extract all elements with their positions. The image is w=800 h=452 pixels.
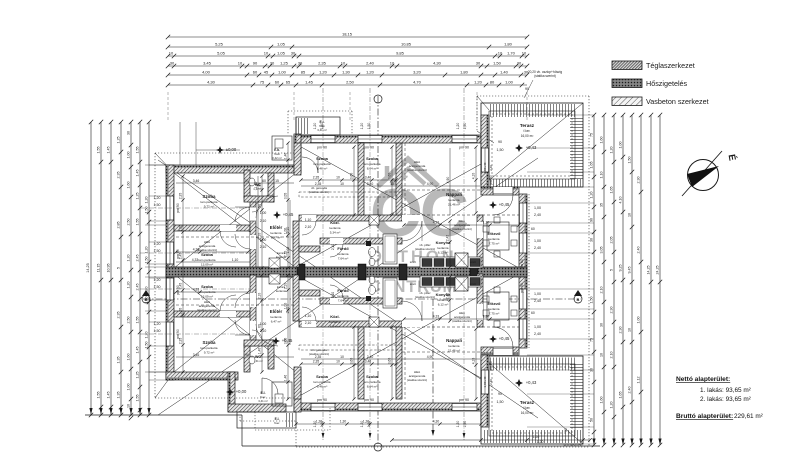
- svg-text:6,12 m²: 6,12 m²: [438, 303, 449, 307]
- svg-text:1,40: 1,40: [258, 183, 262, 190]
- door gap furdo b: [330, 298, 343, 304]
- svg-text:Szoba: Szoba: [201, 284, 214, 289]
- bottom window chain: [296, 423, 481, 425]
- svg-text:+0,45: +0,45: [499, 336, 510, 341]
- svg-text:2,10: 2,10: [284, 283, 288, 290]
- svg-text:15: 15: [275, 179, 279, 183]
- svg-text:4,90: 4,90: [427, 355, 434, 359]
- svg-text:90: 90: [590, 218, 594, 222]
- partition door arc bottom: [220, 295, 236, 311]
- svg-text:4,10: 4,10: [472, 358, 476, 365]
- svg-text:1,50: 1,50: [497, 148, 504, 152]
- svg-text:6,47 m²: 6,47 m²: [271, 320, 282, 324]
- svg-text:60: 60: [258, 204, 262, 208]
- svg-text:10: 10: [628, 213, 632, 217]
- svg-text:4,30: 4,30: [433, 420, 440, 424]
- svg-text:18,15: 18,15: [342, 31, 353, 36]
- door arc nappali bottom: [402, 301, 422, 321]
- svg-text:1,60: 1,60: [127, 182, 131, 189]
- svg-text:1,35: 1,35: [117, 357, 121, 364]
- svg-text:1,20: 1,20: [363, 420, 370, 424]
- svg-text:Terasz: Terasz: [520, 123, 535, 128]
- bottom porch step hatching: [284, 413, 295, 427]
- svg-text:0,42 m²: 0,42 m²: [272, 156, 282, 160]
- window S wall 3: [452, 403, 477, 411]
- svg-text:1,20: 1,20: [319, 69, 328, 74]
- svg-text:4,30: 4,30: [207, 79, 216, 84]
- svg-text:1,50: 1,50: [590, 297, 594, 304]
- window N wall 3: [452, 135, 477, 143]
- terrace door arc top: [493, 195, 513, 215]
- svg-text:9,72 m²: 9,72 m²: [204, 351, 215, 355]
- svg-text:2,50: 2,50: [346, 79, 355, 84]
- party wall column blocks: [297, 264, 305, 280]
- svg-text:2,35: 2,35: [117, 312, 121, 319]
- svg-text:szell.: szell.: [470, 282, 477, 286]
- terrace diagonal: [481, 356, 583, 444]
- eb storage box bottom: [272, 382, 292, 406]
- window E wall 1: [519, 203, 527, 223]
- svg-text:szell.: szell.: [410, 260, 417, 264]
- svg-text:1,30: 1,30: [342, 69, 351, 74]
- window N wall 1: [311, 135, 335, 143]
- terrace edge hatching: [489, 358, 575, 371]
- dimension extension lines top: [167, 92, 169, 122]
- svg-text:10: 10: [264, 50, 269, 55]
- extension lines right side: [527, 114, 594, 116]
- svg-text:10: 10: [340, 355, 344, 359]
- insulation strip bottom-left wing: [166, 378, 238, 381]
- svg-text:1,25: 1,25: [117, 137, 121, 144]
- svg-text:1,20: 1,20: [154, 196, 161, 200]
- svg-text:(statika szerint): (statika szerint): [415, 247, 435, 251]
- section line B-B horizontal: [143, 298, 581, 300]
- svg-text:2,35: 2,35: [313, 360, 320, 364]
- svg-text:8,46 m²: 8,46 m²: [317, 385, 328, 389]
- interior wall: wc east wall bottom: [268, 340, 274, 369]
- svg-text:1,50: 1,50: [493, 60, 502, 65]
- door gap nappali bottom: [402, 321, 422, 327]
- svg-text:kerámia: kerámia: [270, 315, 281, 319]
- svg-text:24,25: 24,25: [656, 266, 660, 275]
- svg-text:5,34 m²: 5,34 m²: [330, 325, 341, 329]
- svg-text:3,20: 3,20: [413, 69, 422, 74]
- svg-text:2,10: 2,10: [305, 321, 312, 325]
- svg-text:10: 10: [390, 60, 395, 65]
- svg-text:2,30: 2,30: [610, 307, 614, 314]
- svg-text:1,20: 1,20: [154, 278, 161, 282]
- extension lines to left strip: [149, 164, 166, 166]
- door gap kozl b: [302, 321, 316, 327]
- bathtub top unit: [383, 234, 397, 264]
- svg-text:Előtér: Előtér: [270, 225, 283, 230]
- svg-text:1,00: 1,00: [637, 317, 641, 324]
- svg-text:kerámia: kerámia: [329, 226, 340, 230]
- door arc elotér-szoba1: [235, 207, 250, 222]
- svg-text:30: 30: [127, 131, 131, 135]
- beam dashed nappali-konyha top: [402, 214, 519, 216]
- svg-text:f.ker.: f.ker.: [274, 421, 280, 425]
- toilet top unit furdo: [369, 258, 375, 266]
- svg-text:Étkező: Étkező: [488, 301, 501, 306]
- svg-text:16,00 m²: 16,00 m²: [521, 134, 534, 138]
- svg-text:3,05: 3,05: [600, 247, 604, 254]
- level mark +0,45: [273, 211, 281, 219]
- interior chain left wing vertical: [182, 176, 184, 372]
- svg-text:1,50: 1,50: [154, 329, 161, 333]
- svg-text:1,20: 1,20: [533, 435, 540, 439]
- wall: szoba846 west wall lower extension: [294, 369, 301, 412]
- window E wall 4: [519, 319, 527, 339]
- legend box teglaszerkezet: [612, 61, 642, 70]
- top dimension chain lines: [168, 36, 527, 38]
- partition door gap top: [220, 225, 236, 231]
- insulation strip left wall: [166, 165, 169, 380]
- svg-text:4,00: 4,00: [202, 69, 211, 74]
- svg-text:1,45: 1,45: [136, 170, 140, 177]
- svg-text:Fürdő: Fürdő: [337, 246, 349, 251]
- svg-text:7,75 m²: 7,75 m²: [489, 312, 500, 316]
- svg-text:1,50: 1,50: [367, 123, 371, 130]
- svg-text:2,35: 2,35: [318, 60, 327, 65]
- svg-text:10: 10: [169, 50, 174, 55]
- window W left wall 1: [166, 196, 174, 220]
- dotted facade line between terraces: [528, 194, 530, 348]
- svg-text:lam.parketta: lam.parketta: [363, 162, 380, 166]
- svg-text:2,40: 2,40: [534, 246, 541, 250]
- interior wall: kamra walls bottom: [293, 275, 299, 321]
- svg-text:4,33: 4,33: [433, 221, 440, 225]
- svg-text:2,35: 2,35: [315, 182, 322, 186]
- svg-text:Szoba: Szoba: [316, 374, 329, 379]
- insulation strip SE wall: [481, 353, 519, 356]
- window W left wall 4: [166, 322, 174, 346]
- svg-text:1,50: 1,50: [154, 249, 161, 253]
- svg-text:9,25: 9,25: [619, 265, 623, 272]
- svg-text:1,70: 1,70: [507, 50, 516, 55]
- svg-text:9,85: 9,85: [396, 50, 405, 55]
- svg-text:4,33: 4,33: [433, 315, 440, 319]
- svg-text:+0,43: +0,43: [526, 145, 537, 150]
- svg-text:1,20: 1,20: [456, 123, 460, 130]
- svg-text:5,05: 5,05: [217, 50, 226, 55]
- svg-text:1,55: 1,55: [136, 395, 140, 402]
- svg-text:Hőszigetelés: Hőszigetelés: [646, 79, 688, 88]
- svg-text:1,55: 1,55: [97, 392, 101, 399]
- svg-text:1,00: 1,00: [278, 69, 287, 74]
- svg-text:Szoba: Szoba: [203, 340, 216, 345]
- svg-text:Szoba: Szoba: [316, 156, 329, 161]
- level line at entrance top: [196, 149, 240, 151]
- party wall between dwellings: [166, 267, 527, 277]
- svg-text:8,64 m²: 8,64 m²: [367, 167, 378, 171]
- svg-text:pm 90: pm 90: [364, 398, 374, 402]
- svg-text:4,10: 4,10: [619, 197, 623, 204]
- bottom dim line under terrace: [392, 439, 590, 441]
- svg-text:kerámia: kerámia: [270, 231, 281, 235]
- svg-text:1,20: 1,20: [360, 123, 364, 130]
- svg-text:1,60: 1,60: [600, 137, 604, 144]
- svg-text:2,35: 2,35: [179, 338, 183, 345]
- door gap etkezo b: [477, 304, 483, 320]
- level mark ±0,00: [216, 146, 224, 154]
- HEA beam dashed right wing top: [404, 143, 406, 215]
- svg-text:2,35: 2,35: [313, 176, 320, 180]
- svg-text:7,75 m²: 7,75 m²: [489, 242, 500, 246]
- svg-text:2,40: 2,40: [534, 213, 541, 217]
- svg-text:1,50: 1,50: [463, 123, 467, 130]
- vb gerenda dashed beam bottom: [299, 345, 402, 350]
- svg-text:1,30: 1,30: [340, 420, 347, 424]
- svg-text:1,20: 1,20: [474, 79, 483, 84]
- insulation strip porch wall bottom: [228, 372, 231, 412]
- svg-text:1,00: 1,00: [284, 228, 288, 235]
- svg-text:60: 60: [275, 79, 280, 84]
- svg-text:10: 10: [341, 60, 346, 65]
- svg-text:2,40: 2,40: [489, 379, 493, 385]
- svg-text:(statika szerint): (statika szerint): [452, 227, 472, 231]
- svg-text:1,40: 1,40: [500, 69, 509, 74]
- svg-text:9,45: 9,45: [628, 267, 632, 274]
- window E wall 3: [519, 289, 527, 309]
- svg-text:1,45: 1,45: [107, 392, 111, 399]
- svg-text:(statika szerint): (statika szerint): [407, 378, 427, 382]
- svg-text:1,00: 1,00: [127, 384, 131, 391]
- svg-text:1,40: 1,40: [258, 348, 262, 355]
- terrace door arc bottom: [493, 327, 513, 347]
- svg-text:4,33: 4,33: [193, 288, 200, 292]
- svg-text:lam.parketta: lam.parketta: [200, 346, 217, 350]
- svg-text:2,10: 2,10: [284, 251, 288, 258]
- svg-text:90: 90: [525, 87, 529, 91]
- svg-text:4,33: 4,33: [192, 258, 199, 262]
- door arc nappali top: [402, 221, 422, 241]
- svg-text:1,10: 1,10: [232, 258, 239, 262]
- svg-text:1,65: 1,65: [610, 187, 614, 194]
- svg-text:pm 90: pm 90: [520, 283, 524, 293]
- svg-text:2,10: 2,10: [305, 225, 312, 229]
- svg-text:50: 50: [564, 428, 568, 432]
- svg-text:1,10: 1,10: [305, 218, 312, 222]
- svg-text:4,10: 4,10: [472, 173, 476, 180]
- svg-text:1,20: 1,20: [145, 247, 149, 254]
- roof projection diagonals: [294, 143, 519, 268]
- svg-text:2,40: 2,40: [366, 60, 375, 65]
- svg-text:kerámia: kerámia: [337, 252, 348, 256]
- svg-text:2,50: 2,50: [127, 317, 131, 324]
- svg-text:1,60: 1,60: [600, 397, 604, 404]
- door arc kozl b: [302, 307, 316, 321]
- washbasin top unit: [369, 248, 376, 257]
- svg-text:1,45: 1,45: [107, 147, 111, 154]
- svg-text:1,65: 1,65: [590, 162, 594, 169]
- window axis lines left wall: [140, 207, 250, 209]
- washing machine X-box bottom: [269, 274, 280, 284]
- wall: top porch west wall: [294, 134, 301, 173]
- svg-text:1,05: 1,05: [179, 308, 183, 315]
- washbasin bottom unit: [369, 286, 376, 295]
- left dimension chain lines: [90, 122, 92, 415]
- terrain paving line bottom: [241, 415, 243, 446]
- svg-text:1,55: 1,55: [136, 317, 140, 324]
- svg-text:10: 10: [336, 176, 340, 180]
- interior wall: szoba846/864 divider: [358, 143, 364, 215]
- svg-text:2,50: 2,50: [127, 219, 131, 226]
- svg-text:5,34 m²: 5,34 m²: [330, 231, 341, 235]
- svg-text:1,50: 1,50: [154, 285, 161, 289]
- partition door gap bottom: [220, 311, 236, 317]
- svg-text:229,61 m²: 229,61 m²: [734, 413, 763, 420]
- svg-text:90: 90: [253, 60, 258, 65]
- svg-text:6,47 m²: 6,47 m²: [271, 236, 282, 240]
- svg-text:1,20: 1,20: [127, 282, 131, 289]
- level mark +0,45: [489, 201, 497, 209]
- svg-text:1,00: 1,00: [534, 206, 541, 210]
- insulation strip NE wall: [481, 187, 519, 190]
- svg-text:60: 60: [258, 324, 262, 328]
- interior wall: szoba partition top-left wing: [174, 225, 250, 231]
- svg-text:2,40: 2,40: [628, 387, 632, 394]
- svg-text:10: 10: [336, 360, 340, 364]
- svg-text:1,12: 1,12: [637, 377, 641, 384]
- insulation strip lower wall: [294, 409, 481, 412]
- compass north symbol: [688, 160, 719, 191]
- svg-text:1,05: 1,05: [179, 225, 183, 232]
- top porch step hatching: [297, 118, 308, 134]
- svg-text:1,20: 1,20: [145, 332, 149, 339]
- svg-text:1,25: 1,25: [136, 372, 140, 379]
- svg-text:Előtér: Előtér: [270, 309, 283, 314]
- svg-text:Terasz: Terasz: [520, 400, 535, 405]
- svg-text:(statika szerint): (statika szerint): [415, 295, 435, 299]
- svg-text:1,00: 1,00: [534, 292, 541, 296]
- svg-text:90: 90: [245, 353, 249, 357]
- svg-text:1,50: 1,50: [145, 257, 149, 264]
- terrace level mark +0,43: [515, 144, 523, 152]
- wall: nappali/terrace west wall top: [481, 115, 489, 187]
- door gap elotér-szoba1: [250, 207, 256, 221]
- svg-text:kerámia: kerámia: [329, 320, 340, 324]
- level mark +0,00: [226, 388, 234, 396]
- eloter big arc top: [256, 196, 278, 218]
- svg-text:21,46 m²: 21,46 m²: [448, 203, 460, 207]
- HEA beam dashed top-left wing: [176, 236, 294, 238]
- svg-text:10,85: 10,85: [401, 41, 412, 46]
- svg-text:lam.parketta: lam.parketta: [200, 200, 217, 204]
- dimension extension left: [145, 164, 166, 166]
- svg-text:Szoba: Szoba: [366, 156, 379, 161]
- svg-text:1,50: 1,50: [497, 400, 504, 404]
- wall: lower exterior wall of right wing: [294, 403, 481, 411]
- svg-text:5,25: 5,25: [215, 41, 224, 46]
- svg-text:Vasbeton szerkezet: Vasbeton szerkezet: [646, 97, 709, 106]
- eloter big arc bottom: [256, 324, 278, 346]
- svg-text:4,90: 4,90: [446, 177, 450, 184]
- svg-text:1,05: 1,05: [277, 50, 286, 55]
- svg-text:2,40: 2,40: [534, 299, 541, 303]
- interior wall: elotér west wall bottom: [250, 275, 256, 346]
- svg-text:2,10: 2,10: [258, 293, 262, 300]
- svg-text:16,00 m²: 16,00 m²: [521, 411, 534, 415]
- svg-text:1,45: 1,45: [136, 347, 140, 354]
- svg-text:6,12 m²: 6,12 m²: [438, 251, 449, 255]
- svg-text:1,46: 1,46: [284, 153, 288, 160]
- svg-text:3,60: 3,60: [350, 173, 354, 180]
- interior wall: middle horizontal y215: [299, 215, 402, 221]
- svg-text:2,10: 2,10: [260, 245, 267, 249]
- svg-text:2,35: 2,35: [315, 355, 322, 359]
- window axis lines bottom windows: [322, 403, 324, 440]
- bottom porch outline: [237, 412, 296, 428]
- svg-text:f.ker.: f.ker.: [524, 129, 531, 133]
- interior wall: szoba divider b2: [396, 327, 402, 399]
- svg-text:85: 85: [301, 69, 306, 74]
- vb gerenda dashed beam top: [299, 192, 402, 197]
- level mark +0,45: [489, 335, 497, 343]
- terrace inner dashed outline: [492, 114, 572, 176]
- svg-text:1,00+40: 1,00+40: [483, 376, 487, 387]
- svg-text:3,60: 3,60: [388, 173, 392, 180]
- svg-text:1,55: 1,55: [136, 147, 140, 154]
- svg-text:2,40: 2,40: [637, 247, 641, 254]
- window W left wall 3: [166, 278, 174, 300]
- svg-text:5: 5: [117, 267, 121, 269]
- kitchen counter bottom unit: [420, 276, 481, 287]
- svg-text:1,20: 1,20: [590, 192, 594, 199]
- svg-text:11,15: 11,15: [97, 264, 101, 273]
- svg-text:pm 90: pm 90: [489, 175, 493, 185]
- svg-text:+0,00: +0,00: [236, 389, 247, 394]
- svg-text:3,46: 3,46: [193, 353, 200, 357]
- svg-text:2,85: 2,85: [117, 222, 121, 229]
- svg-text:1,25: 1,25: [280, 60, 289, 65]
- svg-text:+0,45: +0,45: [499, 202, 510, 207]
- svg-text:65: 65: [286, 79, 291, 84]
- svg-text:2,10: 2,10: [258, 233, 262, 240]
- svg-text:2,30: 2,30: [619, 327, 623, 334]
- svg-text:1,20: 1,20: [537, 440, 544, 444]
- insulation strip upper wall: [294, 135, 481, 138]
- kitchen counter top unit: [420, 257, 481, 268]
- window E wall 2: [519, 233, 527, 253]
- svg-text:2,30: 2,30: [637, 177, 641, 184]
- interior wall: elotér west wall top: [250, 196, 256, 267]
- svg-text:kerámia: kerámia: [448, 344, 459, 348]
- column block bottom: [366, 296, 371, 301]
- svg-text:7,64 m²: 7,64 m²: [338, 299, 349, 303]
- svg-text:kerámia: kerámia: [488, 307, 499, 311]
- svg-text:2,42: 2,42: [446, 293, 450, 300]
- interior wall: wc south wall top: [244, 196, 274, 202]
- right dimension chain lines: [593, 115, 595, 445]
- top porch entry door arc: [302, 157, 318, 173]
- svg-text:60: 60: [262, 179, 266, 183]
- svg-text:90: 90: [245, 179, 249, 183]
- wall: left exterior wall: [166, 165, 174, 380]
- wc toilet top: [249, 178, 255, 186]
- svg-text:FD.ORSŐ250: FD.ORSŐ250: [564, 442, 583, 447]
- wall: terrace west wall bottom: [481, 355, 489, 427]
- svg-text:1,65: 1,65: [619, 392, 623, 399]
- svg-text:1,00: 1,00: [505, 79, 514, 84]
- svg-text:1,80: 1,80: [460, 69, 469, 74]
- insulation strip east wall: [525, 194, 528, 348]
- svg-text:Nettó alapterület:: Nettó alapterület:: [676, 376, 730, 383]
- svg-text:1,00: 1,00: [619, 142, 623, 149]
- svg-text:2,45: 2,45: [136, 284, 140, 291]
- svg-text:B: B: [577, 297, 580, 302]
- watermark Otthon Centrum logo: [369, 159, 468, 296]
